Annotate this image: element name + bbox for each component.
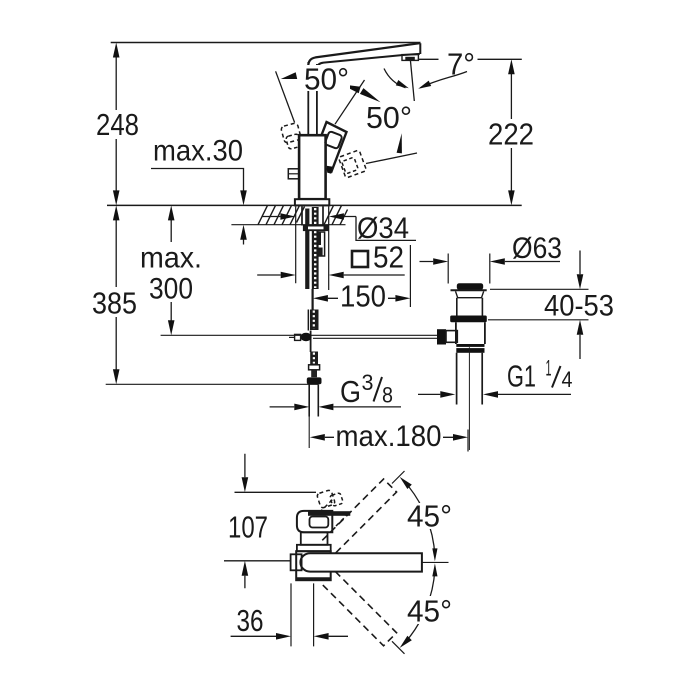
arrow G114 left <box>440 391 455 398</box>
svg-text:50°: 50° <box>304 62 349 97</box>
dim 36 tails <box>231 635 348 637</box>
dia63 dim tails <box>420 261 561 263</box>
40-53 extension lines <box>488 289 589 320</box>
top reference line (spout top level) <box>111 42 421 44</box>
arrow 36 left <box>276 633 291 640</box>
svg-text:385: 385 <box>92 286 137 321</box>
arrow lever arc upper <box>360 88 381 102</box>
45deg lower arc <box>404 569 435 644</box>
plan handle bar <box>308 511 350 516</box>
dim 107 tails <box>244 454 246 589</box>
G38 dim tails <box>270 406 401 408</box>
arrow 50deg-2 arc <box>397 133 402 153</box>
dashed handle-up square outer <box>317 490 336 509</box>
7deg tilted axis line <box>410 60 414 101</box>
svg-text:1: 1 <box>546 356 552 381</box>
svg-text:G: G <box>340 374 361 409</box>
arrow 50deg-1 right arc <box>341 84 361 93</box>
horizontal pop-up rod bottom line <box>313 337 437 339</box>
svg-text:40-53: 40-53 <box>544 290 614 323</box>
drain pop-up cap <box>457 283 483 290</box>
thread segment 3 <box>310 352 318 365</box>
arrow 36 right <box>314 633 329 640</box>
solid lever handle <box>312 122 347 172</box>
max30 lower tail <box>243 239 245 245</box>
dim 222 line <box>510 74 512 192</box>
horizontal pop-up rod top line / max300 reference <box>161 334 438 336</box>
svg-text:max.180: max.180 <box>336 420 442 453</box>
counter bottom line <box>231 224 345 226</box>
arrow dia34 left <box>280 213 295 220</box>
arrow max180 right <box>453 434 468 441</box>
svg-text:7°: 7° <box>447 47 475 82</box>
svg-text:107: 107 <box>228 510 268 545</box>
coupling <box>309 365 320 370</box>
arrow max300 bottom <box>168 320 175 335</box>
handle bottom tip <box>327 166 333 174</box>
45deg upper arc <box>404 481 435 557</box>
plan handle head <box>297 511 332 532</box>
150 right extension line (from aerator) <box>409 245 411 307</box>
supply pipe <box>309 384 318 416</box>
arrow G38 left <box>294 404 309 411</box>
plan view spout center reference line <box>224 560 291 562</box>
drain center line <box>468 347 470 450</box>
threaded rod <box>312 207 319 289</box>
plan neck section <box>301 532 328 545</box>
svg-text:8: 8 <box>382 383 393 408</box>
plan handle inner rect <box>310 517 329 528</box>
thread segment 2 <box>310 310 319 331</box>
aerator level line (7deg leader) <box>418 58 522 60</box>
svg-text:52: 52 <box>373 240 404 275</box>
G114 dim tails <box>418 393 571 395</box>
spout top edge <box>308 43 420 66</box>
arrow G38 right <box>318 404 333 411</box>
label sq52 square symbol <box>352 251 368 267</box>
max180 right extension line <box>467 430 469 452</box>
aerator <box>402 55 418 61</box>
drain taper <box>456 291 484 297</box>
svg-text:50°: 50° <box>366 100 412 135</box>
base plate <box>295 199 329 205</box>
arrow 150 left <box>313 295 328 302</box>
svg-text:300: 300 <box>149 273 193 306</box>
drain flange <box>451 289 487 291</box>
mounting bracket screw <box>318 232 325 256</box>
left dashed handle inner square <box>286 134 302 150</box>
mounting tube outer lines <box>302 207 323 226</box>
plan escutcheon body <box>296 551 331 580</box>
dim 36 extension lines <box>291 583 314 646</box>
counter top line <box>107 204 522 206</box>
faucet body <box>299 135 326 199</box>
drain neck sides <box>457 298 483 316</box>
385 bottom reference line <box>106 383 318 385</box>
dark column <box>311 370 317 377</box>
arrow 222 top <box>508 59 515 74</box>
lower dashed spout position (45 down) <box>322 571 396 645</box>
arrow 150 right <box>395 295 410 302</box>
dia34 dim tails <box>263 216 357 218</box>
left pipe extension line <box>308 417 310 449</box>
rod clamp block at drain <box>437 329 446 344</box>
40-53 dim line <box>579 251 581 360</box>
counter hatching left <box>258 205 305 224</box>
50deg-2 upper line (lever axis solid position) <box>335 80 365 124</box>
upper lever axis extension <box>392 471 405 484</box>
arrow 45 upper-arc top <box>400 477 412 489</box>
arrow 4053 bottom <box>577 320 584 335</box>
svg-text:36: 36 <box>237 603 264 638</box>
drain locking nut <box>450 316 487 323</box>
plan escutcheon bottom thick edge <box>297 577 330 580</box>
dia34 leader elbow and underline <box>356 217 416 241</box>
counter hatching right <box>324 205 348 224</box>
arrow dia63 left <box>433 258 448 265</box>
plan view top reference line <box>235 491 317 493</box>
svg-text:max.30: max.30 <box>153 135 243 168</box>
plan flange step <box>297 545 331 551</box>
arrow 385 top <box>113 205 120 220</box>
svg-text:45°: 45° <box>407 499 452 534</box>
plan spout bar <box>300 553 421 571</box>
dim 150 line <box>328 297 396 299</box>
shank left dark bar <box>305 209 309 290</box>
arrow max30 up <box>240 225 247 240</box>
arrow 107 top <box>242 477 249 492</box>
arrow dia34 right <box>329 213 344 220</box>
spout end face <box>419 43 421 54</box>
max30 leader underline and drop <box>151 169 244 192</box>
svg-text:150: 150 <box>340 279 386 314</box>
7deg arc right <box>421 72 468 88</box>
upper dashed spout position (45 up) <box>322 479 396 553</box>
right dashed square inner <box>342 157 359 174</box>
arrow sq52 left <box>281 272 296 279</box>
rod between <box>310 331 312 353</box>
arrow G114 right <box>483 391 498 398</box>
right dashed square outer <box>338 150 366 178</box>
spout bottom edge <box>317 54 420 69</box>
left dashed handle outer square <box>281 123 302 144</box>
arrow sq52 right <box>329 272 344 279</box>
plan side protrusion square <box>291 554 302 570</box>
arrow 50deg-1 left arc <box>281 72 297 79</box>
rod left end piece <box>295 334 301 340</box>
arrow 385 bottom <box>113 369 120 384</box>
arrow 7deg right arc <box>418 81 431 89</box>
svg-text:248: 248 <box>96 107 139 142</box>
arrow 45 lower-arc end <box>400 636 412 648</box>
spout tip center line <box>422 561 449 563</box>
pop-up rod upper <box>312 289 314 310</box>
arrow 107 bottom <box>242 561 249 576</box>
drain tailpipe G1 1/4 <box>457 353 483 405</box>
dashed handle-up square inner <box>330 493 344 507</box>
50deg-1 left line (rotated handle axis) <box>276 71 295 122</box>
dim 385 line <box>115 219 117 370</box>
max180 dim line <box>325 436 453 438</box>
hex nut <box>307 377 322 384</box>
handle-up dashed edge marks <box>320 499 350 526</box>
arrow 45 lower-arc top <box>432 563 437 576</box>
svg-text:G1: G1 <box>507 359 536 394</box>
rod clamp ball <box>300 333 311 341</box>
svg-text:4: 4 <box>562 367 573 392</box>
lower lever axis extension <box>392 641 405 654</box>
arrow dia63 right <box>490 258 505 265</box>
faucet neck lines <box>308 62 317 135</box>
dia63 extension lines <box>448 254 490 284</box>
50deg-2 lower line (lever axis dashed position) <box>366 153 417 164</box>
arrow max30 down <box>240 190 247 205</box>
drain bottom band <box>456 344 484 347</box>
text backgrounds <box>90 65 536 624</box>
svg-text:3: 3 <box>362 370 374 395</box>
handle inner square <box>324 131 342 149</box>
arrow max180 left <box>310 434 325 441</box>
arrow 222 bottom <box>508 190 515 205</box>
arrow 7deg left arc <box>396 80 409 88</box>
arrow 248 top <box>113 43 120 58</box>
dim max300 line <box>170 220 172 322</box>
arrow 45 upper-arc end <box>432 548 437 561</box>
side protrusion on body <box>288 169 299 179</box>
arrow 248 bottom <box>113 190 120 205</box>
arrow 4053 top <box>577 274 584 289</box>
sq52 extension lines from base plate <box>296 207 329 291</box>
ARROWHEADS <box>113 43 583 648</box>
rod clevis <box>446 331 457 343</box>
drain body <box>456 322 485 344</box>
arrow max300 top <box>168 205 175 220</box>
sq52 dim tails <box>257 274 405 276</box>
svg-text:45°: 45° <box>407 594 452 629</box>
svg-text:222: 222 <box>488 117 534 152</box>
mounting washer <box>304 226 328 231</box>
7deg arc left <box>384 69 406 88</box>
dim 248 line <box>115 56 117 191</box>
svg-text:Ø63: Ø63 <box>512 232 562 265</box>
svg-text:max.: max. <box>140 242 202 275</box>
